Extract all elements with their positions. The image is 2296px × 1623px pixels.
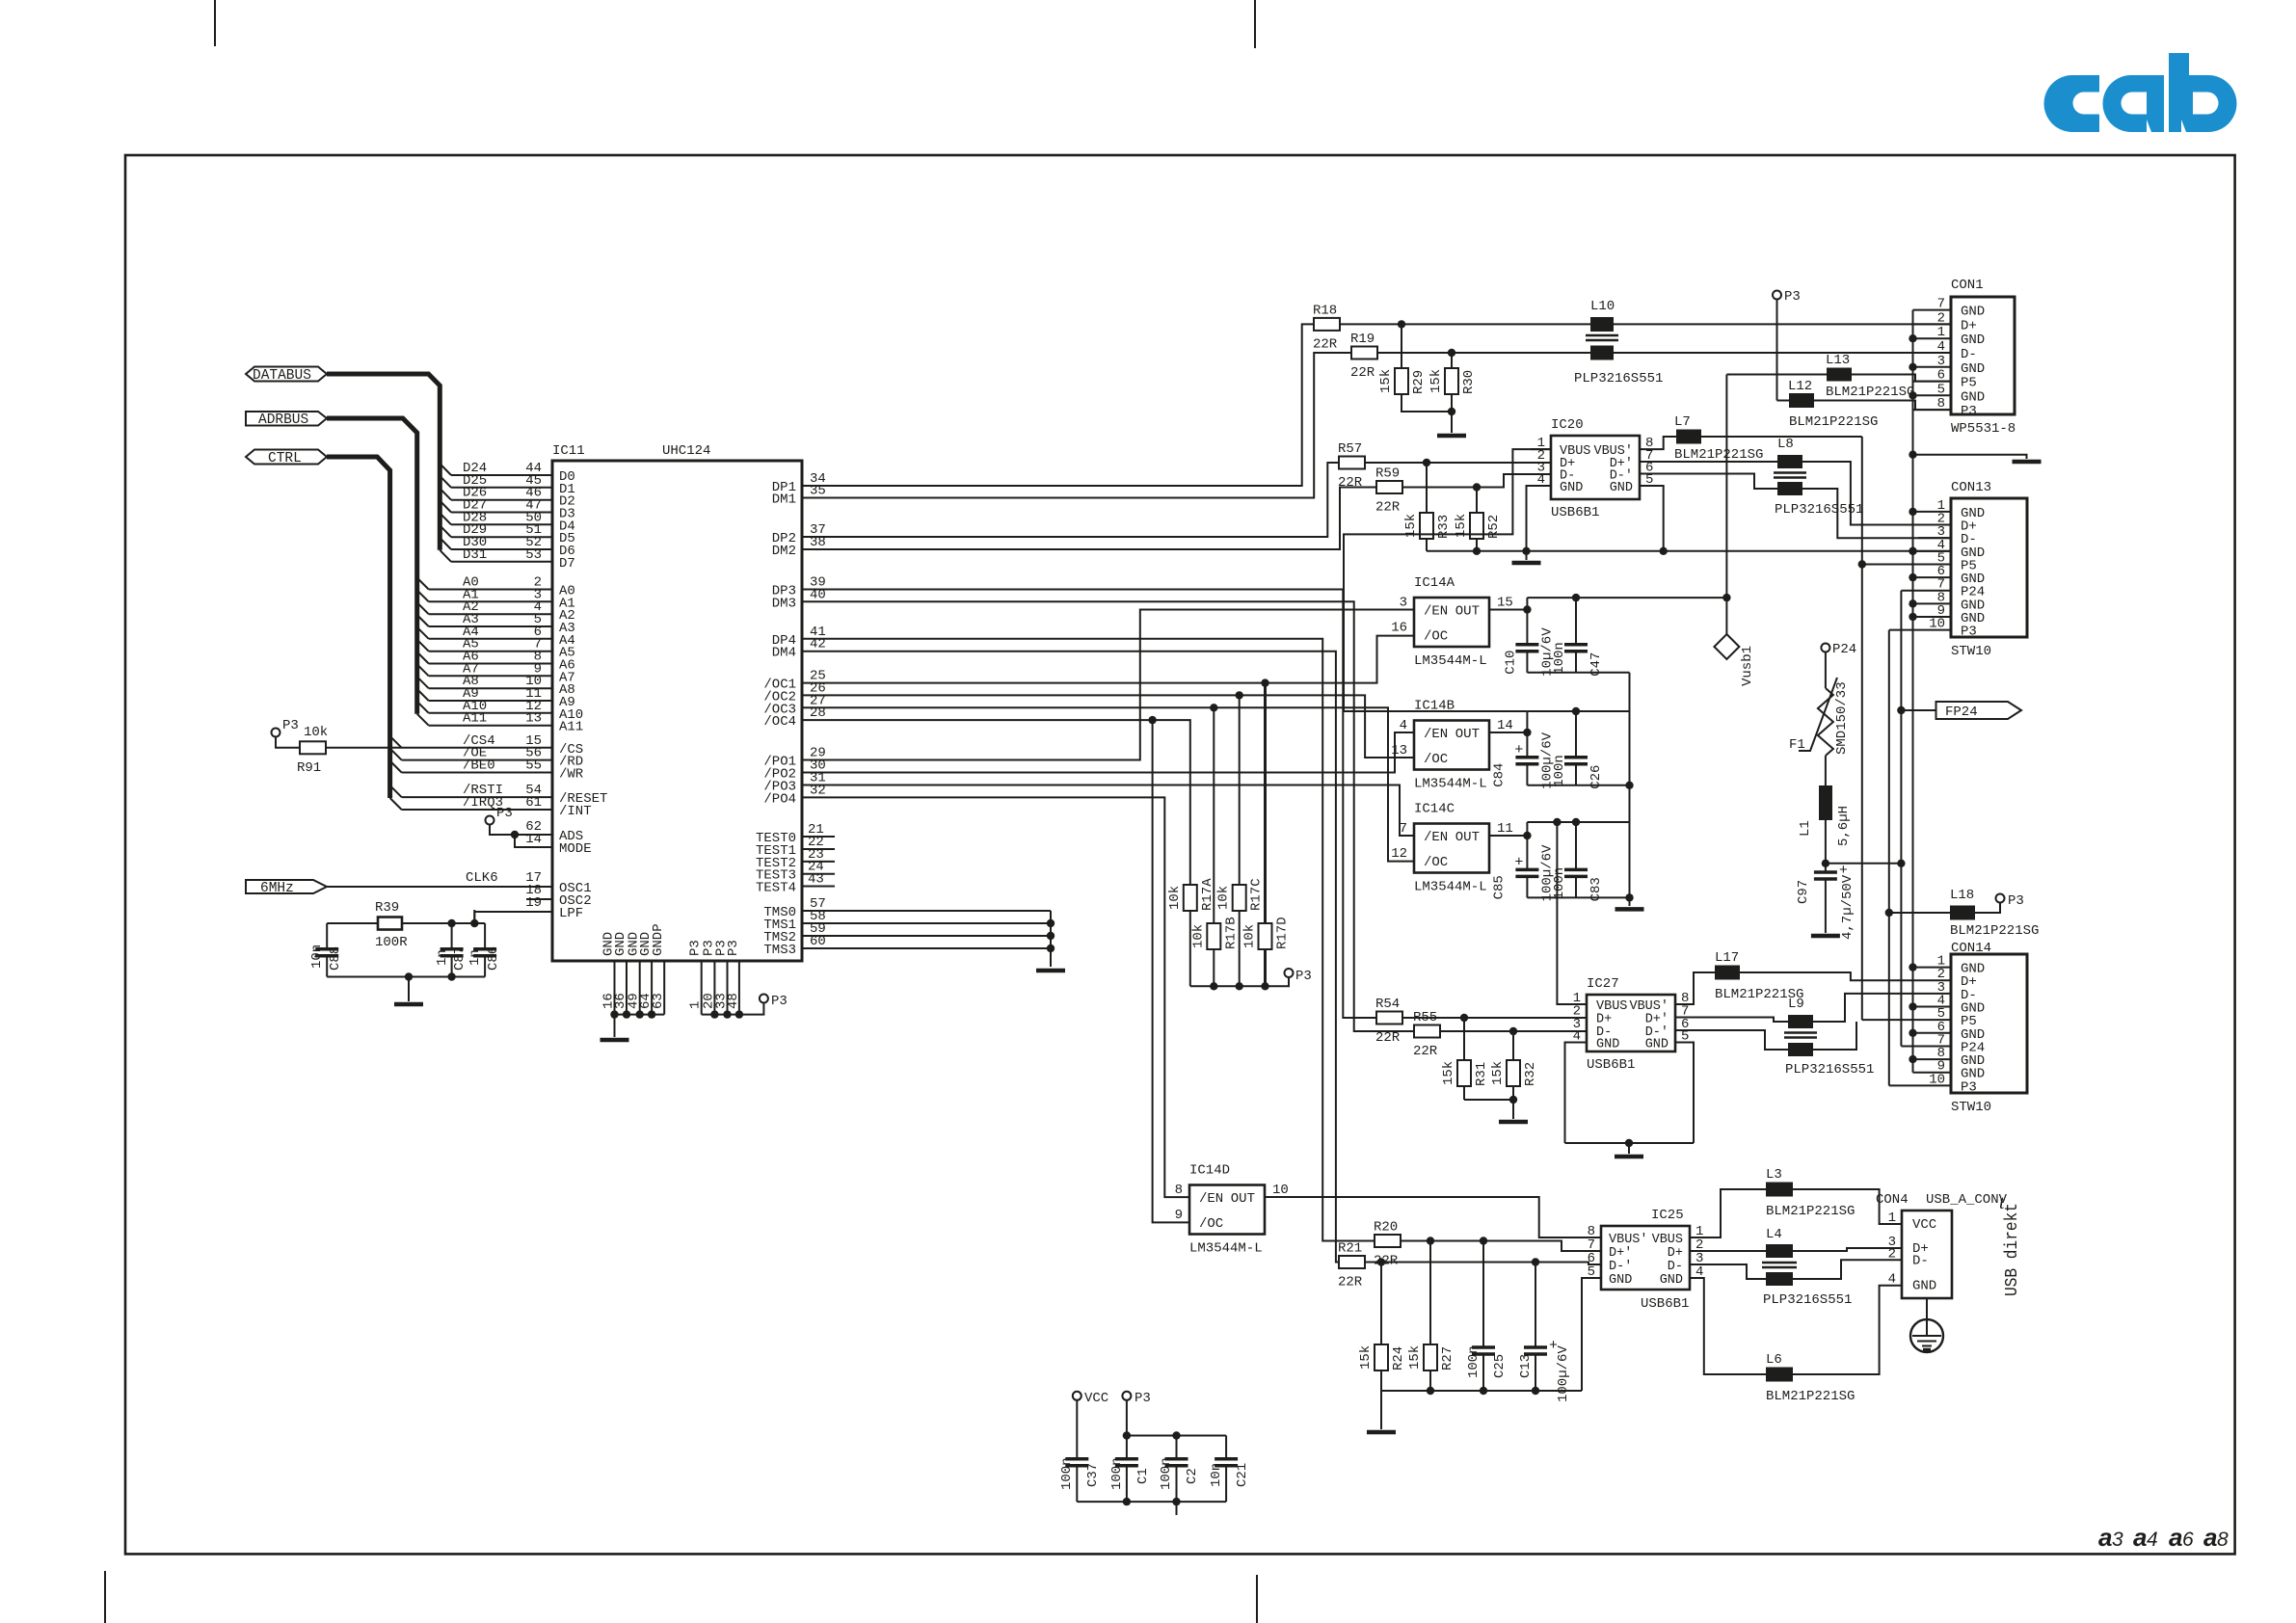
- svg-text:CON14: CON14: [1951, 941, 1991, 956]
- capacitor C1 100n: [1126, 1436, 1128, 1459]
- IC11 pin 54 /RESET wire from CTRL (/RSTI): [390, 785, 402, 797]
- resistor R57 22R: [1339, 457, 1365, 469]
- IC11 pin 50 D4 wire from DATABUS (D28): [440, 513, 451, 524]
- svg-text:STW10: STW10: [1951, 644, 1991, 659]
- capacitor C37 100n: [1076, 1400, 1078, 1459]
- svg-text:L6: L6: [1766, 1352, 1782, 1368]
- wire L4 lower to CON4 D-: [1793, 1260, 1902, 1279]
- svg-text:/OC4: /OC4: [763, 714, 796, 730]
- svg-text:R91: R91: [297, 760, 321, 776]
- svg-text:F1: F1: [1789, 737, 1805, 753]
- IC11 pin 47 D3 wire from DATABUS (D27): [440, 501, 451, 513]
- svg-text:VBUS': VBUS': [1609, 1233, 1648, 1247]
- svg-text:8: 8: [2217, 1529, 2229, 1551]
- P24 column: [1900, 591, 1902, 1047]
- CON1 pin 4 D-: [1913, 352, 1952, 354]
- L9 lower out: [1813, 1022, 1856, 1050]
- wire L13 to CON1 P5: [1852, 375, 1951, 382]
- IC11 pin 24 TEST3 stub: [802, 873, 835, 875]
- svg-text:100n: 100n: [1552, 867, 1567, 900]
- svg-text:DM2: DM2: [772, 544, 796, 559]
- svg-text:PLP3216S551: PLP3216S551: [1763, 1292, 1852, 1308]
- wire R18 to L10: [1340, 323, 1590, 325]
- svg-text:OUT: OUT: [1455, 604, 1480, 620]
- svg-text:10k: 10k: [304, 725, 328, 740]
- cluster bottom rail: [1527, 672, 1629, 674]
- svg-text:/EN: /EN: [1199, 1191, 1223, 1207]
- wire PLP to CON1 D-: [1614, 352, 1951, 354]
- wire L8 to CON13 D+: [1802, 462, 1951, 525]
- svg-text:1: 1: [1888, 1211, 1896, 1226]
- svg-text:P3: P3: [1784, 289, 1801, 305]
- resistor R32 15k: [1512, 1031, 1514, 1060]
- wire DM3 pin40 to R55: [802, 601, 1414, 1031]
- svg-text:IC14C: IC14C: [1414, 802, 1455, 817]
- node VCC: [1073, 1392, 1081, 1400]
- IC11 pin 5 A3 wire from ADRBUS (A3): [417, 615, 429, 626]
- resistor R21 22R: [1339, 1256, 1365, 1268]
- IC25 pin5 GND to rail: [1582, 1278, 1601, 1391]
- svg-text:100n: 100n: [1552, 755, 1567, 787]
- svg-text:A11: A11: [463, 711, 487, 727]
- svg-text:D-: D-: [1961, 347, 1977, 362]
- wire R57 to IC20 D+: [1365, 462, 1551, 464]
- IC11 pin 55 /WR wire from CTRL (/BE0): [390, 761, 402, 773]
- svg-text:CTRL: CTRL: [268, 451, 302, 466]
- svg-text:22R: 22R: [1350, 365, 1375, 381]
- IC11 pin 21 TEST0 stub: [802, 836, 835, 838]
- wire L17 to CON14 D+: [1740, 972, 1951, 980]
- CON1 pin 8 P3: [1913, 409, 1952, 411]
- svg-text:L12: L12: [1788, 379, 1812, 394]
- svg-text:2: 2: [1888, 1246, 1896, 1262]
- connector CON13 STW10: [1951, 498, 2027, 637]
- Vusb1 net vertical: [1725, 375, 1727, 599]
- power switch IC14D LM3544M-L: [1189, 1185, 1265, 1235]
- svg-text:BLM21P221SG: BLM21P221SG: [1826, 385, 1914, 400]
- IC11 bottom P3 pins 1 20 33 48: [701, 961, 703, 1015]
- cluster bottom rail: [1527, 896, 1629, 898]
- svg-text:100µ/6V: 100µ/6V: [1556, 1345, 1571, 1402]
- svg-text:15k: 15k: [1490, 1061, 1506, 1085]
- IC11 pin 46 D2 wire from DATABUS (D26): [440, 489, 451, 500]
- svg-text:C21: C21: [1235, 1463, 1250, 1487]
- svg-text:11: 11: [1497, 821, 1513, 837]
- capacitor C83 100n: [1572, 818, 1580, 826]
- IC25 pin3 to L4 lower: [1690, 1264, 1766, 1279]
- svg-text:P3: P3: [1961, 625, 1977, 640]
- rail B extension to IC20 VBUS: [1344, 449, 1551, 711]
- IC11 pin 22 TEST1 stub: [802, 848, 835, 850]
- USB filter IC20 USB6B1: [1551, 436, 1640, 499]
- sheet fold mark top-left: [214, 0, 216, 46]
- svg-text:WP5531-8: WP5531-8: [1951, 421, 2016, 437]
- capacitor C86 1n: [484, 923, 486, 949]
- ADRBUS bus wire: [327, 418, 417, 714]
- svg-text:LM3544M-L: LM3544M-L: [1414, 653, 1487, 669]
- svg-text:GND: GND: [1912, 1279, 1936, 1294]
- bus label CTRL: [246, 450, 327, 465]
- svg-text:4,7µ/50V: 4,7µ/50V: [1840, 874, 1855, 940]
- svg-text:5: 5: [1937, 382, 1945, 397]
- resistor R18 22R: [1314, 318, 1340, 331]
- wire IC14D OUT to IC25 VBUS: [1265, 1197, 1601, 1237]
- IC11 pin 61 /INT wire from CTRL (/IRQ3): [390, 798, 402, 810]
- svg-text:BLM21P221SG: BLM21P221SG: [1950, 923, 2039, 939]
- IC14A OUT pin 15: [1489, 609, 1527, 611]
- svg-text:C25: C25: [1492, 1354, 1508, 1378]
- svg-text:R27: R27: [1440, 1346, 1455, 1370]
- svg-text:USB6B1: USB6B1: [1551, 505, 1599, 520]
- svg-text:22R: 22R: [1338, 475, 1363, 491]
- svg-text:3: 3: [1400, 596, 1407, 611]
- IC20 pin5 GND to rail: [1640, 486, 1664, 551]
- svg-text:R20: R20: [1374, 1220, 1398, 1236]
- svg-text:14: 14: [525, 832, 542, 847]
- IC11 pin 52 D6 wire from DATABUS (D30): [440, 538, 451, 549]
- svg-text:D+': D+': [1609, 1246, 1632, 1261]
- svg-text:R17D: R17D: [1275, 917, 1291, 949]
- ferrite bead L13 BLM21P221SG: [1726, 374, 1827, 376]
- svg-text:12: 12: [1391, 846, 1407, 862]
- R17 rail to P3: [1190, 977, 1289, 986]
- svg-text:15k: 15k: [1441, 1061, 1456, 1085]
- IC27 pin5 GND down: [1675, 1043, 1694, 1144]
- svg-text:+: +: [1514, 742, 1523, 758]
- svg-text:GND: GND: [1560, 481, 1583, 495]
- svg-text:GND: GND: [1596, 1038, 1619, 1052]
- svg-text:6MHz: 6MHz: [260, 881, 294, 896]
- wire L4 to CON4 D+: [1793, 1248, 1902, 1251]
- supply symbol Vusb1: [1725, 598, 1727, 636]
- wire DM2 pin38 to R59: [802, 488, 1376, 550]
- svg-text:UHC124: UHC124: [662, 443, 710, 459]
- svg-text:4: 4: [1937, 339, 1945, 355]
- svg-text:C1: C1: [1135, 1468, 1151, 1484]
- svg-text:/EN: /EN: [1424, 830, 1448, 845]
- IC14D OUT pin 10: [1265, 1196, 1302, 1198]
- common-mode choke L4 PLP3216S551: [1690, 1250, 1766, 1252]
- svg-text:PLP3216S551: PLP3216S551: [1574, 371, 1663, 386]
- capacitor C97 4,7u/50V: [1825, 864, 1827, 872]
- connector CON1 WP5531-8: [1951, 297, 2015, 414]
- fuse F1 SMD150/33: [1825, 652, 1827, 689]
- svg-text:DATABUS: DATABUS: [253, 368, 311, 384]
- ground column for IC14 capacitors: [1629, 673, 1631, 906]
- svg-text:4: 4: [2147, 1529, 2158, 1551]
- svg-text:100n: 100n: [1109, 1457, 1125, 1490]
- capacitor C21 10n: [1225, 1436, 1227, 1459]
- IC20 pin7 to L8: [1640, 461, 1777, 463]
- svg-text:GND: GND: [1660, 1273, 1683, 1288]
- flag FP24: [1901, 709, 1936, 711]
- svg-text:OUT: OUT: [1231, 1191, 1255, 1207]
- wire L6 to CON4 GND: [1793, 1286, 1902, 1374]
- capacitor C13 100u/6V: [1535, 1263, 1536, 1348]
- svg-text:4: 4: [1888, 1272, 1896, 1288]
- svg-text:L17: L17: [1715, 950, 1739, 966]
- svg-text:22R: 22R: [1375, 500, 1401, 516]
- svg-text:9: 9: [1175, 1208, 1183, 1223]
- wire L10 to CON1 D+: [1614, 323, 1951, 325]
- svg-text:22R: 22R: [1338, 1275, 1363, 1290]
- svg-text:10: 10: [1272, 1183, 1289, 1198]
- node P3 above L12: [1773, 291, 1781, 300]
- bus label ADRBUS: [246, 412, 327, 426]
- svg-text:P24: P24: [1832, 642, 1856, 657]
- IC11 pin 45 D1 wire from DATABUS (D25): [440, 476, 451, 488]
- svg-text:C85: C85: [1491, 875, 1507, 899]
- svg-text:100R: 100R: [375, 935, 408, 950]
- svg-text:C37: C37: [1085, 1463, 1101, 1487]
- wire /OC1 pin25 to IC14A /OC: [802, 636, 1414, 683]
- IC11 pin 57 TMS0 wire: [802, 910, 1051, 912]
- svg-text:7: 7: [1400, 821, 1407, 837]
- svg-text:ADRBUS: ADRBUS: [258, 412, 308, 428]
- svg-text:D-: D-: [1668, 1260, 1683, 1274]
- wire R54 to IC27 D+: [1402, 1017, 1587, 1019]
- IC11 pin 53 D7 wire from DATABUS (D31): [440, 550, 451, 562]
- capacitor C10 10µ/6V: [1526, 610, 1528, 645]
- IC27 pin4 GND down: [1565, 1043, 1588, 1144]
- svg-text:22R: 22R: [1413, 1044, 1438, 1059]
- svg-text:R59: R59: [1375, 466, 1400, 482]
- svg-text:GND: GND: [1961, 361, 1985, 377]
- stub to P3 net: [1176, 1502, 1178, 1515]
- resistor R29 15k pulldown: [1401, 324, 1402, 368]
- svg-text:BLM21P221SG: BLM21P221SG: [1674, 447, 1763, 463]
- svg-text:10k: 10k: [1190, 924, 1206, 948]
- svg-text:CLK6: CLK6: [466, 870, 498, 886]
- svg-text:13: 13: [525, 711, 542, 727]
- svg-text:22R: 22R: [1313, 336, 1338, 352]
- svg-text:IC20: IC20: [1551, 417, 1584, 433]
- resistor R33 15k: [1426, 463, 1428, 513]
- IC11 pin 44 D0 wire from DATABUS (D24): [440, 464, 451, 475]
- svg-text:SMD150/33: SMD150/33: [1834, 681, 1850, 755]
- IC20 pin6 to L8 lower: [1640, 474, 1777, 490]
- power switch IC14A LM3544M-L: [1414, 598, 1489, 647]
- power switch IC14C LM3544M-L: [1414, 824, 1489, 873]
- svg-text:C10: C10: [1503, 651, 1518, 675]
- svg-text:IC27: IC27: [1587, 976, 1619, 992]
- svg-text:GND: GND: [1609, 1273, 1632, 1288]
- DATABUS bus wire: [327, 374, 440, 550]
- IC11 pin 60 TMS3 wire: [802, 947, 1051, 949]
- svg-text:1n: 1n: [467, 949, 483, 966]
- pullup resistor R91 10k on /CS4: [272, 729, 280, 737]
- svg-text:A11: A11: [559, 720, 583, 735]
- IC11 pin 3 A1 wire from ADRBUS (A1): [417, 590, 429, 601]
- wire to MODE pin 14: [515, 835, 552, 847]
- rail C drop to IC27 VBUS: [1557, 822, 1587, 1004]
- IC11 bottom GND pins 16 36 49 64 63: [614, 961, 616, 1015]
- svg-text:L10: L10: [1590, 299, 1615, 314]
- svg-text:53: 53: [525, 547, 542, 563]
- ground under R30: [1437, 434, 1466, 439]
- CTRL bus wire: [327, 457, 390, 798]
- filter ground rail: [327, 976, 485, 978]
- IC14B OUT pin 14: [1489, 732, 1527, 733]
- svg-text:+: +: [1514, 854, 1523, 870]
- IC11 pin 15 /CS wire from CTRL (/CS4): [390, 736, 402, 748]
- node P3 at L18: [1975, 903, 2000, 914]
- IC14C output to IC27 VBUS: [1523, 832, 1531, 839]
- wire LPF pin 19 to R39 filter: [474, 912, 552, 923]
- capacitor C87 1n: [451, 923, 453, 949]
- svg-text:OUT: OUT: [1455, 830, 1480, 845]
- CON1 pin 7 GND: [1913, 309, 1952, 311]
- connector CON14 STW10: [1951, 954, 2027, 1093]
- svg-text:DM3: DM3: [772, 596, 796, 611]
- svg-text:BLM21P221SG: BLM21P221SG: [1766, 1389, 1855, 1404]
- svg-text:5,6µH: 5,6µH: [1836, 806, 1852, 846]
- IC11 pin 18 OSC2 stub: [526, 898, 552, 900]
- CON1 pin 1 GND: [1913, 337, 1952, 339]
- svg-text:C2: C2: [1185, 1468, 1200, 1484]
- pull resistor R27 15k: [1429, 1241, 1431, 1345]
- IC11 pin 10 A8 wire from ADRBUS (A8): [417, 677, 429, 688]
- svg-text:/WR: /WR: [559, 767, 584, 783]
- IC20 pin4 GND to rail: [1527, 486, 1552, 551]
- svg-text:VCC: VCC: [1084, 1391, 1108, 1406]
- svg-text:P3: P3: [1961, 1079, 1977, 1095]
- svg-text:/INT: /INT: [559, 804, 592, 819]
- IC11 pin 56 /RD wire from CTRL (/OE): [390, 749, 402, 760]
- resistor R20 22R: [1375, 1235, 1401, 1247]
- svg-text:L7: L7: [1674, 414, 1691, 430]
- wire 6MHz CLK6 to OSC1 pin 17: [327, 886, 552, 888]
- bus label DATABUS: [246, 367, 327, 382]
- svg-text:STW10: STW10: [1951, 1100, 1991, 1115]
- IC11 pin 43 TEST4 stub: [802, 886, 835, 888]
- cap top rail: [1127, 1435, 1226, 1437]
- common-mode choke L8 PLP3216S551: [1777, 455, 1802, 468]
- svg-text:/PO4: /PO4: [763, 791, 796, 807]
- CON1 pin 3 GND: [1913, 366, 1952, 368]
- svg-text:R54: R54: [1375, 997, 1400, 1012]
- connector CON4 USB_A_CONV: [1902, 1211, 1952, 1298]
- svg-text:PLP3216S551: PLP3216S551: [1785, 1062, 1874, 1078]
- svg-text:8: 8: [1937, 396, 1945, 412]
- IC20 pin8 to L7: [1640, 437, 1676, 449]
- IC11 pin 8 A6 wire from ADRBUS (A6): [417, 652, 429, 664]
- svg-text:GNDP: GNDP: [651, 923, 666, 956]
- resistor R55 22R: [1414, 1025, 1440, 1038]
- svg-text:R30: R30: [1461, 370, 1477, 394]
- svg-text:TEST4: TEST4: [756, 881, 796, 896]
- IC27 pin6 to L9 lower: [1675, 1030, 1788, 1050]
- cap bottom rail: [1077, 1501, 1226, 1503]
- earth ground symbol: [1926, 1298, 1928, 1319]
- svg-text:D7: D7: [559, 556, 575, 572]
- wire DP2 pin37 to R57: [802, 463, 1339, 537]
- ferrite bead L3 BLM21P221SG: [1690, 1189, 1766, 1237]
- svg-text:a: a: [2098, 1523, 2112, 1552]
- svg-text:LPF: LPF: [559, 906, 583, 921]
- IC11 pin 12 A10 wire from ADRBUS (A10): [417, 702, 429, 713]
- resistor R31 15k: [1463, 1018, 1465, 1060]
- svg-text:VCC: VCC: [1912, 1217, 1936, 1233]
- svg-text:100n: 100n: [1059, 1457, 1075, 1490]
- svg-text:IC25: IC25: [1651, 1208, 1684, 1223]
- svg-text:DM1: DM1: [772, 492, 796, 508]
- svg-text:15k: 15k: [1407, 1345, 1423, 1370]
- svg-text:P3: P3: [771, 994, 788, 1009]
- IC11 pin 2 A0 wire from ADRBUS (A0): [417, 578, 429, 590]
- svg-text:D+: D+: [1961, 318, 1977, 333]
- svg-text:R31: R31: [1474, 1062, 1489, 1086]
- svg-text:C88: C88: [328, 946, 343, 971]
- svg-text:R55: R55: [1413, 1010, 1437, 1025]
- wire /PO4 pin32 to IC14D /EN: [802, 797, 1189, 1197]
- ground at CON1: [1913, 455, 2027, 459]
- svg-text:BLM21P221SG: BLM21P221SG: [1766, 1204, 1855, 1219]
- svg-text:/EN: /EN: [1424, 727, 1448, 742]
- svg-text:R17C: R17C: [1249, 878, 1265, 911]
- svg-text:15k: 15k: [1378, 369, 1394, 393]
- wire L9 to CON14 D-: [1813, 994, 1951, 1022]
- svg-text:1n: 1n: [435, 949, 450, 966]
- ferrite bead L18 BLM21P221SG: [1889, 912, 1950, 914]
- ground: [394, 1002, 423, 1007]
- svg-text:P3: P3: [726, 940, 741, 956]
- ferrite bead L17 BLM21P221SG: [1675, 972, 1715, 1004]
- svg-text:/OC: /OC: [1424, 855, 1448, 870]
- wire L8 to CON13 D-: [1802, 489, 1951, 538]
- GND bus column: [1912, 310, 1914, 1073]
- svg-text:14: 14: [1497, 718, 1513, 733]
- resistor R54 22R: [1376, 1012, 1402, 1024]
- CON1 GND bus: [1909, 334, 1916, 342]
- capacitor C2 100n: [1176, 1436, 1178, 1459]
- wire R55 to IC27 D-: [1440, 1030, 1587, 1032]
- svg-text:R57: R57: [1338, 441, 1362, 457]
- bottom rail: [1381, 1390, 1582, 1392]
- svg-text:IC14A: IC14A: [1414, 575, 1455, 591]
- svg-text:USB_A_CONV: USB_A_CONV: [1926, 1192, 2008, 1208]
- svg-text:P3: P3: [1295, 969, 1312, 984]
- TMS ground tie: [1050, 911, 1052, 967]
- CON1 pin 6 P5: [1913, 381, 1952, 383]
- IC11 pin 23 TEST2 stub: [802, 861, 835, 863]
- svg-text:/BE0: /BE0: [463, 758, 495, 774]
- sheet fold mark bottom-left: [104, 1571, 106, 1623]
- ferrite bead L6 BLM21P221SG: [1690, 1278, 1766, 1374]
- wire R59 to IC20 D-: [1402, 474, 1551, 488]
- svg-text:100n: 100n: [1159, 1457, 1174, 1490]
- wire L3 to CON4 VCC: [1793, 1189, 1902, 1224]
- svg-text:16: 16: [1391, 621, 1407, 636]
- cluster bottom rail: [1527, 785, 1629, 786]
- svg-text:USB6B1: USB6B1: [1641, 1296, 1689, 1312]
- svg-text:D-': D-': [1609, 1260, 1632, 1274]
- svg-text:GND: GND: [1610, 481, 1633, 495]
- wire DP3 pin39 to R54: [802, 590, 1376, 1019]
- svg-text:LM3544M-L: LM3544M-L: [1189, 1241, 1263, 1257]
- svg-text:FP24: FP24: [1945, 705, 1978, 720]
- svg-text:LM3544M-L: LM3544M-L: [1414, 777, 1487, 792]
- wire R19 to PLP choke: [1377, 352, 1590, 354]
- svg-text:TMS3: TMS3: [763, 943, 796, 958]
- svg-text:DM4: DM4: [772, 646, 796, 661]
- resistor R52 15k: [1476, 488, 1478, 514]
- svg-text:VBUS: VBUS: [1652, 1233, 1683, 1247]
- svg-text:55: 55: [525, 758, 542, 774]
- capacitor C26 100n: [1572, 707, 1580, 715]
- svg-text:1: 1: [1937, 325, 1945, 340]
- inductor L1 5,6uH: [1825, 756, 1827, 785]
